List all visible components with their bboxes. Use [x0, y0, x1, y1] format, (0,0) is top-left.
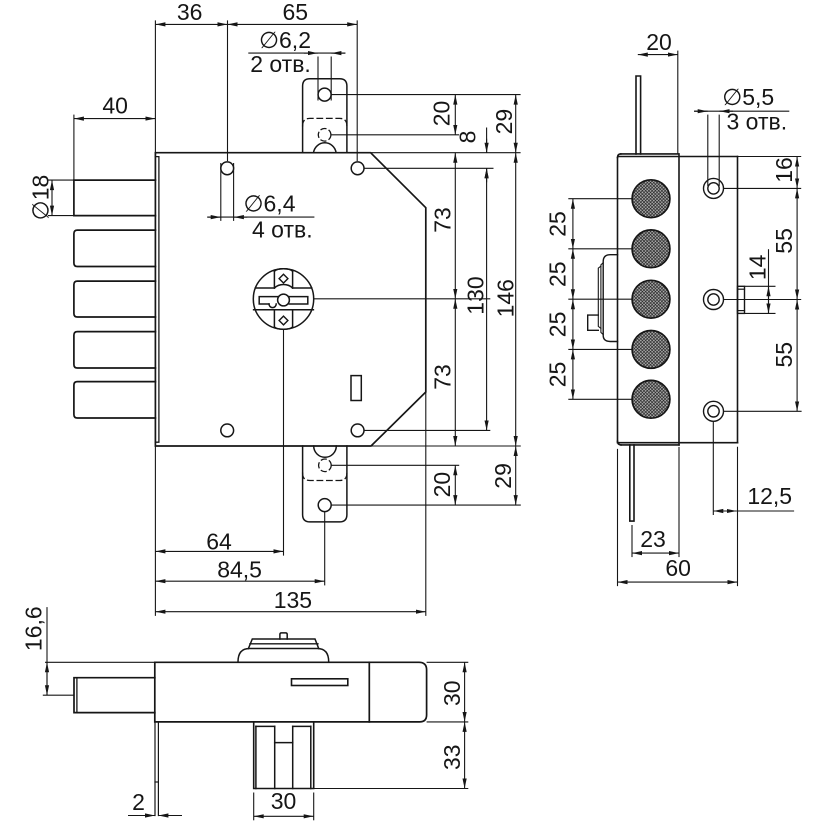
cylinder boss step 3: [598, 266, 601, 328]
keyhole cylinder: [253, 269, 313, 330]
leader from tab hole: [331, 94, 520, 96]
bolt circle 2: [632, 230, 670, 268]
leader from bottom-right hole: [364, 429, 490, 431]
dim 12.5: [712, 422, 714, 516]
dim 30 right: [464, 662, 466, 722]
mounting hole top-left: [221, 162, 234, 175]
deadbolt 5: [74, 382, 155, 418]
bolt circle 4: [632, 331, 670, 369]
dim 73 bottom: [454, 299, 456, 446]
svg-text:16: 16: [771, 157, 797, 183]
svg-text:20: 20: [646, 29, 672, 55]
svg-text:64: 64: [206, 529, 232, 555]
case/plate top inner edge: [618, 156, 738, 158]
knob mid plate: [248, 639, 318, 649]
dim 55 lower: [796, 300, 798, 412]
svg-text:40: 40: [102, 93, 128, 119]
svg-text:30: 30: [439, 680, 465, 706]
screw hole 2: [704, 290, 724, 310]
dim 16.6: [46, 607, 48, 695]
dim 36: [155, 23, 227, 25]
dim 33 right: [464, 722, 466, 789]
dim 146: [515, 153, 517, 446]
svg-text:33: 33: [439, 744, 465, 770]
bolt centre lead: [43, 694, 74, 696]
bolt circle 5: [632, 380, 670, 418]
svg-text:∅18: ∅18: [27, 175, 53, 221]
dim 16: [796, 157, 798, 189]
latch tongue: [738, 286, 745, 313]
leader from top-right hole: [364, 167, 494, 169]
latch slot: [292, 679, 348, 686]
cylinder profile left channel: [256, 726, 311, 742]
bottom tab hole vertical extension: [324, 512, 326, 586]
dim 55 upper: [796, 188, 798, 299]
lower diamond: [279, 316, 288, 325]
plate right edge: [737, 157, 739, 443]
bolt tip line: [76, 678, 78, 713]
svg-text:84,5: 84,5: [217, 557, 262, 583]
svg-text:4 отв.: 4 отв.: [252, 217, 313, 243]
cylinder boss outline: [603, 255, 617, 342]
body outline: [155, 662, 427, 722]
tab hole: [318, 499, 331, 512]
hidden plate edge (dashed): [303, 118, 347, 125]
cylinder housing outline: [254, 722, 314, 789]
case left edge: [617, 158, 619, 442]
hidden plate edge (dashed): [303, 473, 347, 480]
cylinder outer circle: [253, 269, 313, 329]
bolt (bottom view): [74, 678, 155, 713]
latch slot rectangle: [351, 376, 361, 401]
faceplate strip: [155, 722, 158, 816]
case/plate divider: [678, 154, 680, 445]
svg-text:2: 2: [132, 789, 145, 815]
mounting hole bottom-right: [351, 424, 364, 437]
svg-text:3 отв.: 3 отв.: [726, 108, 787, 134]
vertical band left edge: [274, 271, 292, 327]
case top outer edge: [621, 153, 678, 155]
svg-text:73: 73: [429, 364, 455, 390]
key cover tab: [588, 315, 599, 330]
svg-text:73: 73: [429, 207, 455, 233]
svg-text:29: 29: [490, 463, 516, 489]
slot small notch: [269, 304, 276, 308]
svg-text:12,5: 12,5: [747, 483, 792, 509]
mounting hole bottom-left: [221, 424, 234, 437]
bolt centre leads to 25-column: [568, 198, 632, 200]
svg-text:65: 65: [283, 0, 309, 25]
svg-text:29: 29: [491, 109, 517, 135]
svg-text:∅6,4: ∅6,4: [243, 190, 295, 216]
deadbolt 3: [74, 281, 155, 317]
svg-text:25: 25: [544, 312, 570, 338]
bottom rod: [630, 445, 634, 521]
svg-text:∅5,5: ∅5,5: [722, 84, 774, 110]
svg-text:55: 55: [771, 228, 797, 254]
svg-text:135: 135: [274, 587, 312, 613]
slot center circle: [278, 294, 290, 306]
dim 40: [74, 118, 155, 120]
faceplate inner edge line: [155, 157, 159, 443]
dim 23: [631, 525, 633, 557]
svg-text:130: 130: [462, 276, 488, 314]
body top edge extension: [371, 152, 521, 154]
top rod: [636, 76, 641, 154]
rod end arc: [314, 446, 337, 457]
vertical band top arc: [274, 269, 292, 330]
leader from keyhole center: [314, 298, 491, 300]
svg-text:25: 25: [544, 211, 570, 237]
svg-text:60: 60: [665, 555, 691, 581]
mounting hole top-right: [351, 162, 364, 175]
tab plate outline: [303, 79, 347, 153]
screw holes: [704, 178, 724, 421]
tab hole: [318, 88, 331, 101]
screw hole 1: [704, 178, 724, 198]
plate bottom edge: [618, 442, 738, 444]
column x=486.6 : dim 8 (outside arrows) + dim 130: [486, 128, 488, 153]
bolt circle 1: [632, 180, 670, 218]
svg-text:146: 146: [492, 279, 518, 317]
bolt circle 3: [632, 280, 670, 318]
body right edge extension down: [425, 392, 427, 616]
svg-text:20: 20: [429, 472, 455, 498]
tab plate outline: [303, 446, 347, 522]
svg-text:30: 30: [271, 788, 297, 814]
upper diamond: [279, 274, 288, 283]
svg-text:16,6: 16,6: [20, 606, 46, 651]
dim 64: [155, 550, 283, 552]
callout O6.4 underline: [207, 216, 314, 218]
body left edge extension down: [154, 446, 156, 616]
leader from bottom tab hole: [331, 504, 521, 506]
deadbolt 1 (top, extended): [74, 180, 155, 216]
bolt circles (hatched): [632, 180, 670, 418]
leader from bottom dashed hole: [331, 464, 459, 466]
deadbolt 2: [74, 230, 155, 266]
plate top lead: [738, 156, 802, 158]
hidden hole (dashed): [318, 129, 331, 142]
svg-text:20: 20: [428, 101, 454, 127]
dim 14 tongue: [745, 285, 776, 287]
knob mid inner line: [250, 643, 318, 645]
hidden hole (dashed): [319, 459, 332, 472]
lock body outline with chamfered right corners: [155, 153, 425, 446]
ext lines for 36/65: [154, 20, 156, 156]
dim O18: [51, 180, 53, 216]
svg-text:36: 36: [177, 0, 203, 25]
keyhole centre vertical extension: [283, 329, 285, 555]
leader from dashed hole: [331, 134, 459, 136]
right column x=455.3 : dim 20 top: [454, 95, 456, 135]
knob stub: [280, 633, 287, 639]
callout O5.5 underline: [694, 110, 789, 112]
svg-text:25: 25: [544, 261, 570, 287]
knob base dome: [238, 649, 329, 662]
dim 65: [228, 23, 358, 25]
svg-text:2 отв.: 2 отв.: [250, 51, 311, 77]
dim 73 top: [454, 153, 456, 299]
svg-text:∅6,2: ∅6,2: [259, 27, 311, 53]
svg-text:23: 23: [640, 526, 666, 552]
dim 2: [128, 815, 155, 817]
deadbolt 4: [74, 332, 155, 368]
callout O6.2 underline: [248, 52, 345, 54]
svg-text:55: 55: [771, 342, 797, 368]
body divider: [368, 662, 370, 722]
case top-left corner: [618, 154, 621, 158]
dim 135: [155, 611, 425, 613]
right leads: [427, 661, 469, 663]
dim 84.5: [155, 580, 324, 582]
top rod tab: [303, 79, 347, 153]
svg-text:25: 25: [544, 362, 570, 388]
bottom rod tab: [303, 446, 347, 522]
case bottom edge: [621, 444, 679, 446]
dim 20 bottom: [454, 465, 456, 505]
cylinder boss step 2: [601, 263, 603, 335]
dim 30 (cylinder housing): [253, 793, 255, 821]
dim 29 bottom: [515, 446, 517, 505]
dim 25 x4: [572, 199, 574, 249]
dim 20 rod: [638, 54, 678, 56]
screw hole 3: [704, 401, 724, 421]
dim 60: [617, 449, 619, 586]
key bit bump top: [274, 285, 292, 289]
screw hole leads: [724, 187, 802, 189]
svg-text:8: 8: [455, 131, 481, 144]
svg-text:14: 14: [745, 254, 771, 280]
rod end arc: [314, 143, 337, 153]
horizontal keyway band: [254, 288, 314, 310]
column x=515.7 : dim 29 top: [515, 95, 517, 153]
inner key slot: [259, 297, 308, 304]
top line lead: [45, 661, 155, 663]
case bottom-left corner: [618, 441, 622, 445]
body bottom edge extension: [371, 445, 521, 447]
